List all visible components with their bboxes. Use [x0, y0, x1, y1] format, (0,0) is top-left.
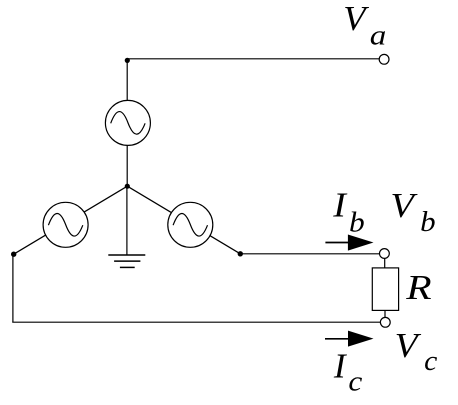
wire node N to node C (diagonal right)	[127, 186, 240, 254]
node B junction dot	[11, 252, 16, 257]
terminal Va open circle	[379, 54, 389, 64]
AC source V2	[43, 202, 88, 247]
svg-text:R: R	[405, 269, 431, 307]
ground	[108, 255, 145, 267]
svg-text:V: V	[343, 0, 370, 38]
AC source V3	[168, 202, 213, 247]
AC source V1	[105, 100, 150, 145]
current arrow Ic	[325, 331, 374, 347]
terminal Vb open circle	[380, 249, 390, 259]
svg-text:b: b	[420, 206, 436, 238]
wire terminal Vb to resistor R	[384, 258, 386, 268]
node A junction dot	[125, 58, 130, 63]
svg-text:c: c	[348, 365, 363, 398]
svg-text:V: V	[390, 185, 417, 224]
resistor R body	[372, 268, 398, 311]
svg-text:c: c	[424, 345, 437, 377]
wire node C to terminal Vb	[240, 253, 379, 255]
wire top vertical from node A to source V1	[126, 59, 128, 101]
svg-text:b: b	[349, 205, 365, 238]
current arrow Ib	[325, 235, 373, 251]
node N junction dot	[125, 184, 130, 189]
node C junction dot	[238, 251, 243, 256]
svg-text:a: a	[370, 19, 387, 52]
wire node B down left side	[12, 254, 14, 322]
svg-text:I: I	[333, 347, 348, 386]
wire bottom horizontal to terminal Vc	[12, 321, 380, 323]
svg-text:V: V	[395, 326, 422, 365]
wire node N to ground	[126, 186, 128, 255]
svg-text:I: I	[332, 185, 348, 224]
wire top horizontal from node A to terminal Va	[127, 58, 380, 60]
wire resistor R to terminal Vc	[384, 310, 386, 317]
wire source V1 to node N	[126, 145, 128, 186]
wire node N to node B (diagonal left)	[14, 186, 128, 254]
terminal Vc open circle	[380, 317, 390, 327]
